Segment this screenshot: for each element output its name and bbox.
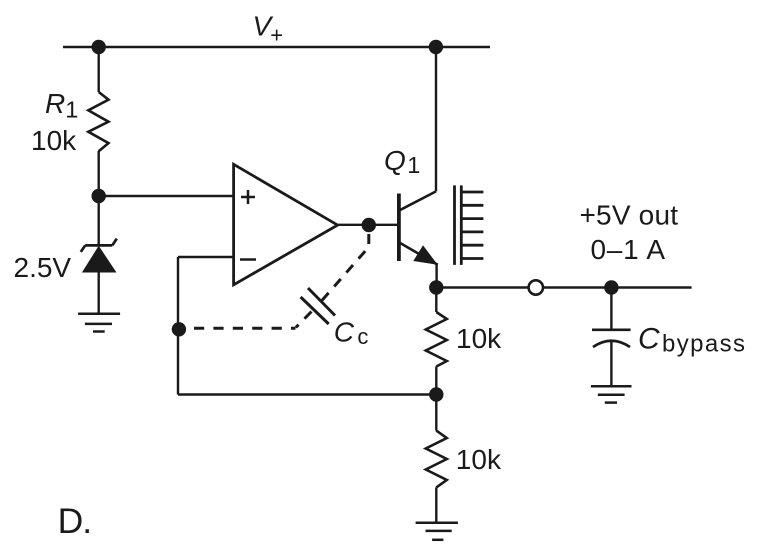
wire Cbypass top lead: [610, 288, 612, 330]
wire zener bottom lead: [97, 271, 99, 314]
resistor 10k lower divider: [426, 431, 447, 488]
zener diode 2.5V: [81, 239, 117, 252]
wire Q1 emitter vertical: [435, 264, 437, 288]
capacitor Cbypass: [592, 330, 631, 347]
wire divider middle lower lead: [435, 395, 437, 431]
wire V+ rail: [63, 46, 490, 48]
wire output row left: [436, 286, 528, 288]
terminal (open circle on output): [529, 280, 543, 294]
wire feedback vertical: [177, 257, 179, 395]
wire zener top lead: [97, 196, 99, 246]
ground (divider): [416, 523, 458, 540]
node junction R1 / zener / op-amp input: [92, 189, 106, 203]
svg-text:+5V out: +5V out: [580, 200, 679, 231]
wire feedback bottom horizontal: [178, 393, 436, 395]
ground (zener): [78, 314, 120, 332]
wire divider bottom lead: [435, 487, 437, 522]
wire op-amp output to base: [338, 224, 398, 226]
node Cbypass junction: [604, 280, 618, 294]
wire R1 top lead: [97, 47, 99, 92]
svg-text:2.5V: 2.5V: [14, 252, 72, 283]
wire Cbypass bottom lead: [610, 341, 612, 386]
wire inverting input: [178, 256, 234, 258]
transistor Q1: [399, 191, 438, 264]
svg-text:D.: D.: [58, 501, 93, 541]
wire non-inverting input: [99, 195, 234, 197]
op-amp U1: [234, 164, 338, 284]
svg-text:10k: 10k: [456, 323, 502, 354]
node junction V+ rail / Q1 collector: [429, 40, 443, 54]
svg-text:10k: 10k: [31, 125, 77, 156]
wire output row right: [543, 286, 691, 288]
node emitter output junction: [429, 280, 443, 294]
node divider midpoint junction: [429, 387, 443, 401]
wire divider top lead: [435, 288, 437, 313]
wire Q1 collector vertical: [435, 47, 437, 191]
heatsink: [455, 185, 484, 265]
ground (Cbypass): [591, 386, 632, 402]
resistor R1: [88, 92, 108, 151]
wire divider middle upper lead: [435, 367, 437, 395]
node feedback / Cc junction: [172, 322, 186, 336]
wire R1 bottom lead: [97, 151, 99, 196]
capacitor Cc (dashed compensation): [186, 234, 368, 328]
svg-text:10k: 10k: [456, 444, 502, 475]
node junction V+ rail / R1: [92, 40, 106, 54]
node op-amp output: [362, 218, 376, 232]
svg-text:0–1 A: 0–1 A: [591, 234, 666, 265]
resistor 10k upper divider: [426, 312, 447, 367]
